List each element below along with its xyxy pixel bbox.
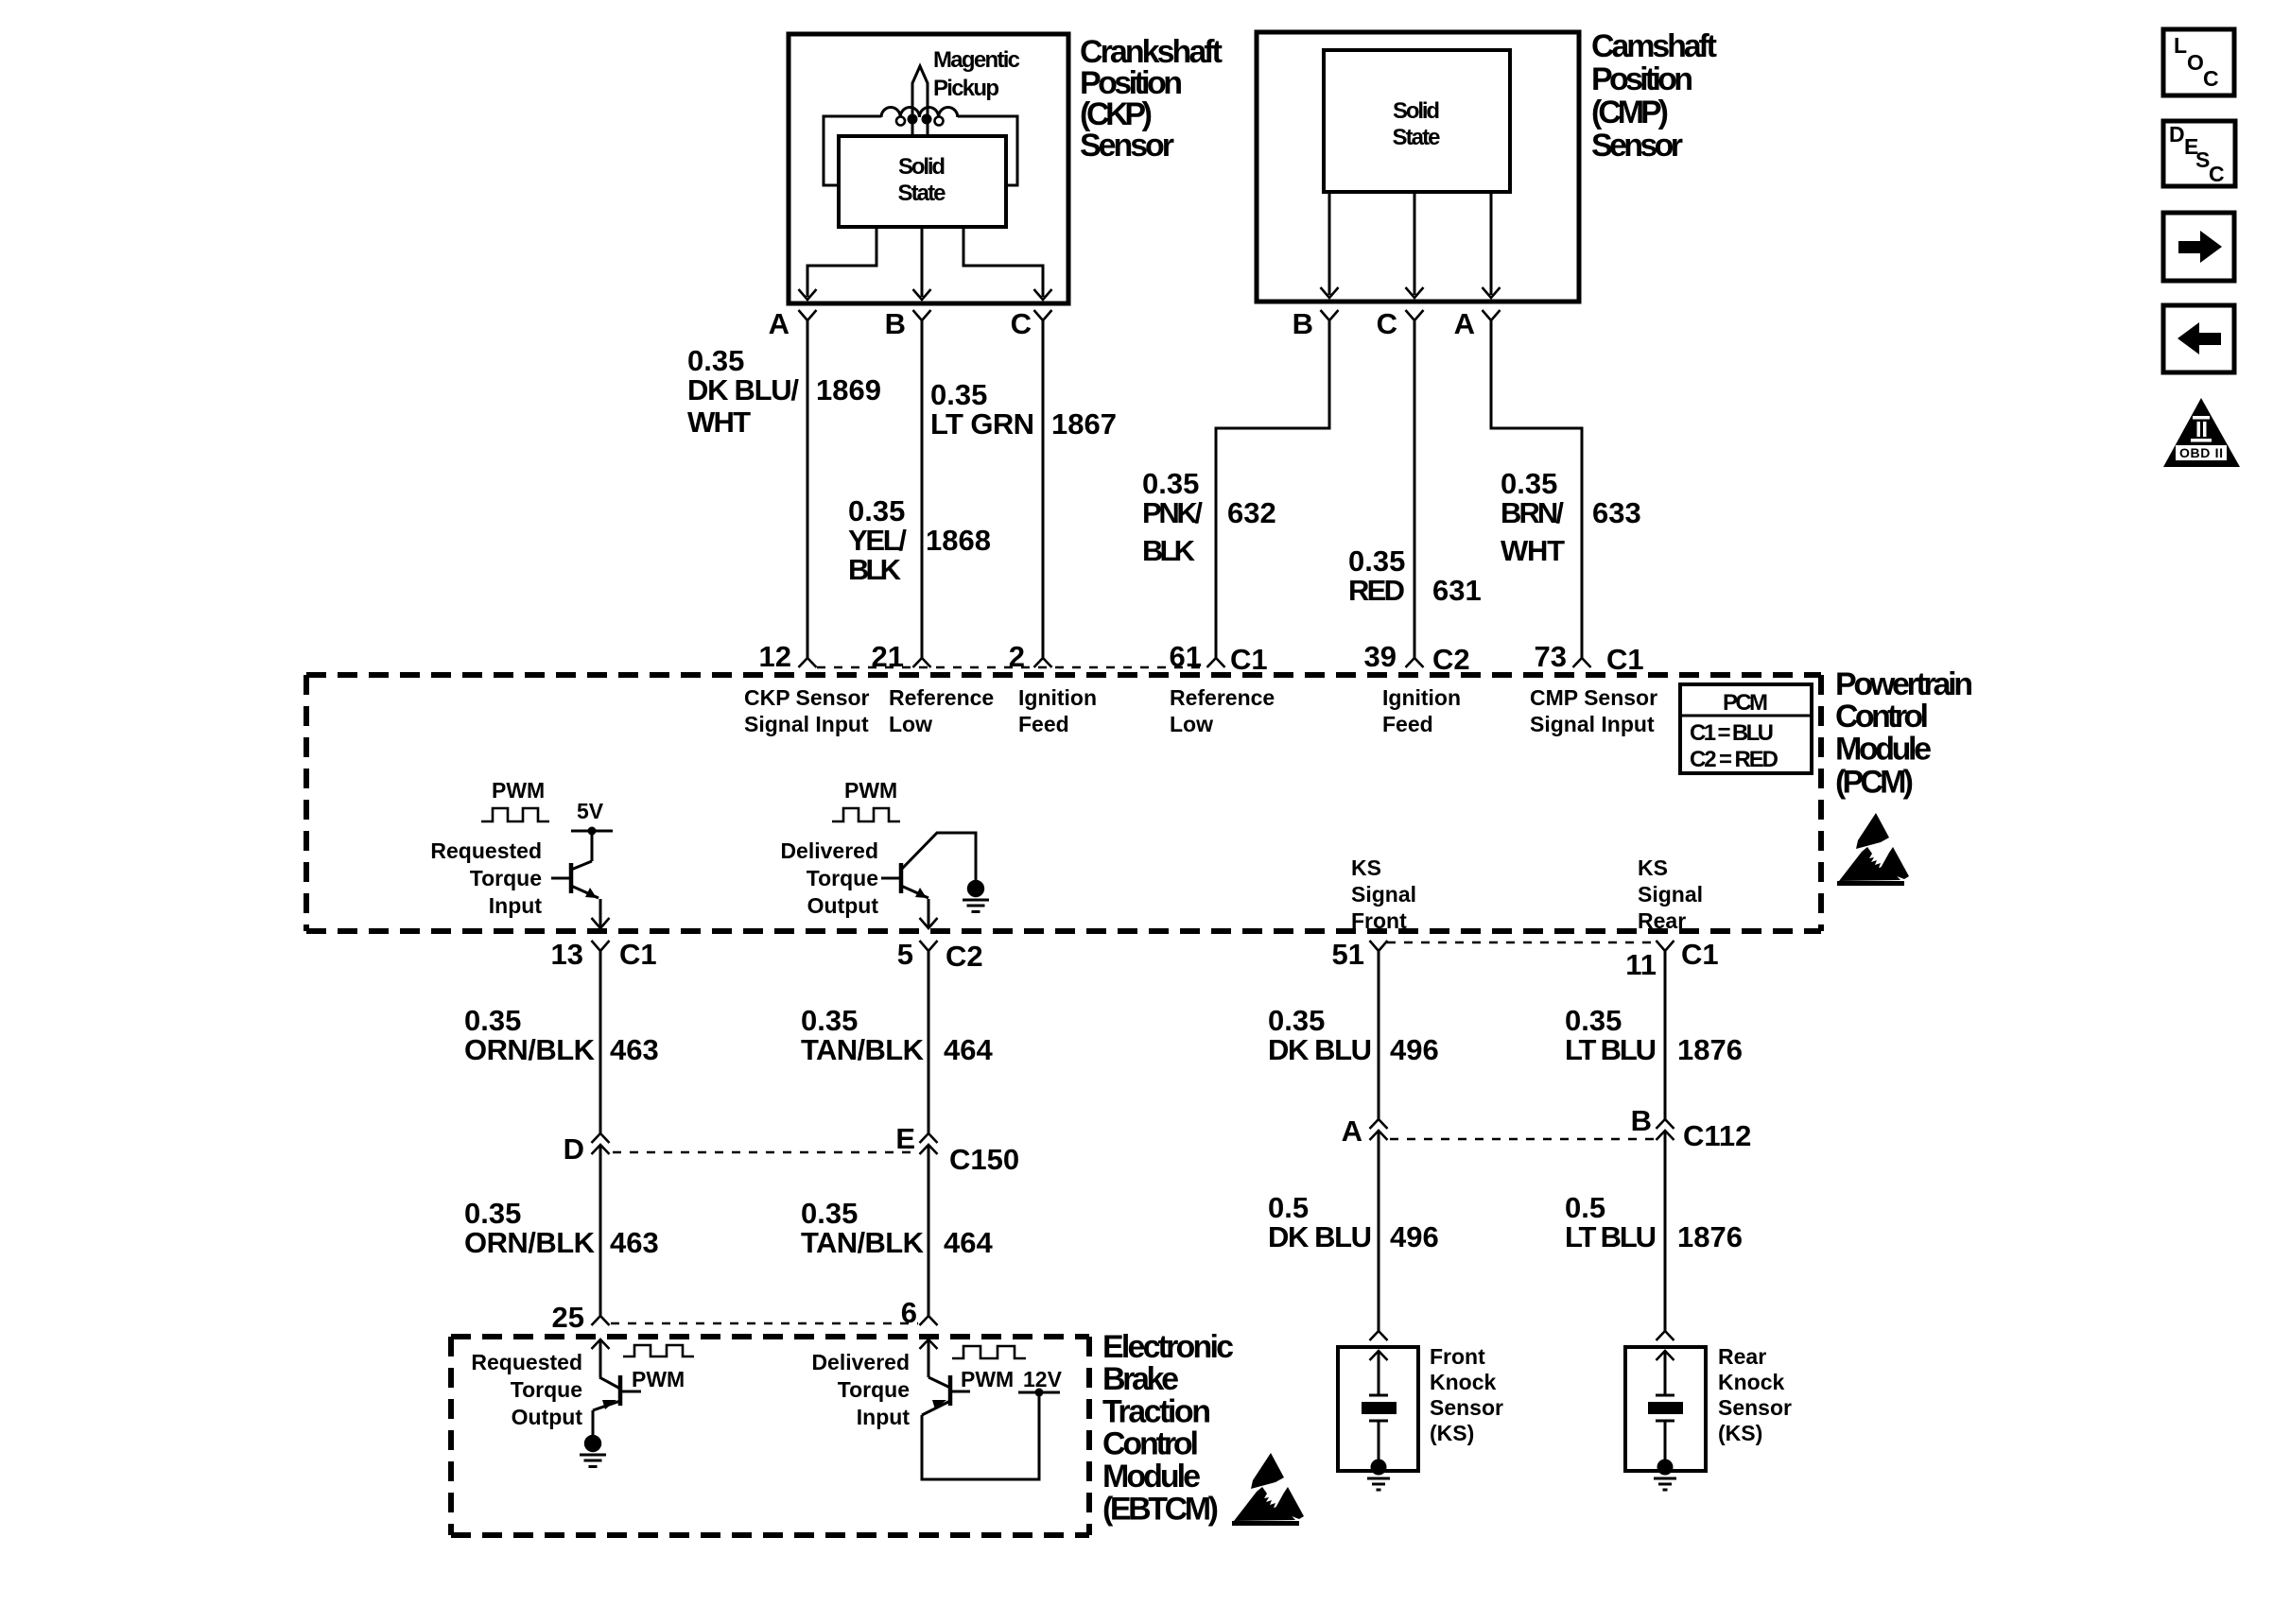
transistor Q3 requested torque output	[599, 1377, 620, 1389]
wire 464 PCM 5 to C150 E	[928, 951, 930, 1133]
svg-text:Magentic: Magentic	[933, 47, 1020, 73]
svg-text:(KS): (KS)	[1718, 1421, 1762, 1445]
svg-text:Sensor: Sensor	[1718, 1395, 1792, 1420]
svg-text:State: State	[1393, 125, 1441, 150]
OBD II icon	[2163, 398, 2240, 467]
svg-text:11: 11	[1625, 948, 1657, 981]
svg-text:LT BLU: LT BLU	[1565, 1033, 1657, 1066]
forward arrow icon box	[2163, 213, 2234, 281]
wire 633 CMP A to PCM 73	[1491, 320, 1582, 658]
svg-text:DK BLU/: DK BLU/	[687, 373, 799, 406]
wire pin 25 into EBTCM (up arrow)	[592, 1339, 610, 1349]
svg-text:39: 39	[1364, 640, 1397, 673]
PCM connector legend box	[1680, 684, 1812, 773]
svg-text:Position: Position	[1591, 61, 1693, 97]
ground symbol (Q2)	[963, 880, 989, 912]
wire solid-state to pin B	[921, 227, 924, 297]
svg-text:A: A	[1454, 307, 1475, 340]
svg-text:Feed: Feed	[1382, 712, 1433, 736]
svg-text:Reference: Reference	[1170, 685, 1275, 710]
wire 1876 C112 B to rear knock sensor	[1664, 1131, 1667, 1331]
CKP pickup outline	[824, 116, 1017, 185]
svg-text:L: L	[2174, 33, 2187, 58]
svg-text:1876: 1876	[1677, 1033, 1743, 1066]
wire solid-state to pin A	[807, 227, 876, 297]
pin B connector Y	[1321, 310, 1339, 320]
svg-text:C1: C1	[1230, 643, 1268, 676]
svg-text:0.35: 0.35	[1501, 467, 1557, 500]
CMP sensor box	[1257, 32, 1579, 302]
SECTION: mid wires	[464, 938, 1751, 1331]
wire 631 CMP C to PCM 39	[1414, 320, 1416, 658]
svg-text:Sensor: Sensor	[1080, 128, 1174, 164]
svg-text:Input: Input	[857, 1405, 911, 1429]
rear KS ground	[1657, 1460, 1674, 1476]
svg-text:B: B	[885, 307, 906, 340]
front KS ground	[1371, 1460, 1387, 1476]
svg-text:Requested: Requested	[471, 1350, 582, 1374]
svg-text:0.35: 0.35	[1268, 1004, 1325, 1037]
svg-text:RED: RED	[1348, 574, 1405, 607]
svg-text:(KS): (KS)	[1430, 1421, 1474, 1445]
svg-text:C: C	[2209, 162, 2225, 186]
pin B connector Y	[913, 310, 931, 320]
svg-text:DK BLU: DK BLU	[1268, 1033, 1372, 1066]
svg-text:2: 2	[1009, 640, 1025, 673]
wire solid-state to pin C	[1414, 192, 1416, 295]
svg-text:Torque: Torque	[807, 866, 878, 890]
svg-text:Module: Module	[1835, 732, 1932, 768]
svg-text:C1: C1	[1681, 938, 1719, 971]
transistor Q1 requested torque input	[569, 863, 574, 893]
svg-text:KS: KS	[1638, 855, 1668, 880]
wire solid-state to pin A	[1490, 192, 1493, 295]
svg-text:PNK/: PNK/	[1142, 496, 1203, 529]
svg-text:YEL/: YEL/	[848, 524, 907, 557]
rear KS piezo element	[1656, 1394, 1674, 1397]
svg-text:DK BLU: DK BLU	[1268, 1220, 1372, 1253]
wire Q4 emitter to 12V	[922, 1392, 1039, 1479]
svg-text:C112: C112	[1683, 1119, 1751, 1152]
ground symbol (Q3)	[580, 1435, 606, 1467]
svg-text:C2 = RED: C2 = RED	[1690, 747, 1778, 772]
wire Q1 emitter to pin 13	[599, 899, 602, 928]
CKP sensor box	[789, 34, 1068, 303]
svg-text:Torque: Torque	[511, 1377, 582, 1402]
PWM square wave symbol (left)	[481, 808, 549, 821]
svg-text:Delivered: Delivered	[811, 1350, 910, 1374]
svg-text:25: 25	[552, 1301, 584, 1334]
SECTION: CKP sensor	[769, 34, 1223, 340]
svg-text:D: D	[2169, 122, 2185, 147]
svg-text:State: State	[898, 181, 946, 206]
front knock sensor connector chevron	[1370, 1331, 1388, 1340]
svg-text:1869: 1869	[816, 373, 881, 406]
connector C1 thin dashed line pins 12-61	[817, 666, 1207, 669]
svg-text:KS: KS	[1351, 855, 1381, 880]
svg-text:LT GRN: LT GRN	[930, 407, 1034, 441]
PWM square wave symbol (right)	[832, 808, 900, 821]
LOC icon box	[2163, 29, 2234, 95]
svg-text:0.35: 0.35	[930, 378, 987, 411]
svg-text:(PCM): (PCM)	[1835, 765, 1914, 801]
front KS piezo element	[1369, 1394, 1388, 1397]
svg-text:Solid: Solid	[898, 154, 946, 180]
wire 463 C150 D to EBTCM 25	[599, 1145, 602, 1316]
pin C connector Y	[1406, 310, 1424, 320]
wire 463 PCM 13 to C150 D	[599, 951, 602, 1133]
svg-text:73: 73	[1535, 640, 1567, 673]
svg-text:C1: C1	[1606, 643, 1644, 676]
wire solid-state to pin B	[1328, 192, 1331, 295]
DESC icon box	[2163, 121, 2235, 186]
wire 1868 CKP B to PCM 21	[921, 320, 924, 658]
svg-text:D: D	[564, 1132, 584, 1166]
svg-text:(CMP): (CMP)	[1591, 95, 1669, 130]
svg-text:12: 12	[759, 640, 791, 673]
svg-text:5V: 5V	[577, 799, 604, 823]
CMP solid state box	[1324, 50, 1510, 192]
svg-text:Low: Low	[1170, 712, 1213, 736]
svg-text:BLK: BLK	[1142, 534, 1196, 567]
svg-text:Pickup: Pickup	[933, 76, 999, 101]
wire 496 PCM 51 to C112 A	[1378, 951, 1380, 1119]
svg-text:PWM: PWM	[492, 778, 545, 803]
EBTCM module dashed box	[451, 1334, 1089, 1339]
rear KS internal arrow	[1657, 1351, 1674, 1360]
svg-text:Rear: Rear	[1718, 1344, 1766, 1369]
svg-text:C: C	[2203, 66, 2219, 91]
svg-text:Output: Output	[807, 893, 879, 918]
svg-text:Ignition: Ignition	[1018, 685, 1097, 710]
svg-text:TAN/BLK: TAN/BLK	[801, 1226, 925, 1259]
svg-text:0.35: 0.35	[464, 1004, 521, 1037]
wire 496 C112 A to front knock sensor	[1378, 1131, 1380, 1331]
svg-text:A: A	[1342, 1114, 1362, 1148]
svg-text:ORN/BLK: ORN/BLK	[464, 1226, 596, 1259]
SECTION: top wires	[687, 320, 1641, 658]
svg-text:Knock: Knock	[1718, 1370, 1785, 1394]
svg-text:Rear: Rear	[1638, 908, 1686, 933]
svg-text:0.35: 0.35	[1565, 1004, 1622, 1037]
svg-text:0.35: 0.35	[1142, 467, 1199, 500]
svg-text:5: 5	[897, 938, 913, 971]
svg-text:PWM: PWM	[961, 1367, 1014, 1391]
svg-text:Electronic: Electronic	[1102, 1329, 1234, 1365]
5V supply line with junction	[571, 830, 613, 833]
CKP magnetic pickup rod	[912, 66, 928, 138]
pin A connector Y	[799, 310, 817, 320]
svg-text:1868: 1868	[926, 524, 991, 557]
svg-text:A: A	[769, 307, 789, 340]
svg-text:496: 496	[1390, 1220, 1439, 1253]
svg-text:Torque: Torque	[838, 1377, 910, 1402]
svg-text:Feed: Feed	[1018, 712, 1069, 736]
svg-text:61: 61	[1170, 640, 1202, 673]
svg-text:631: 631	[1432, 574, 1482, 607]
wire 1867 CKP C to PCM 2	[1042, 320, 1045, 658]
svg-text:21: 21	[872, 640, 904, 673]
connector thin dashed line pins 25-6	[611, 1322, 918, 1325]
svg-text:1876: 1876	[1677, 1220, 1743, 1253]
svg-text:464: 464	[944, 1033, 993, 1066]
SECTION: CMP sensor	[1257, 28, 1717, 340]
svg-text:632: 632	[1227, 496, 1276, 529]
pin C connector Y	[1034, 310, 1052, 320]
svg-text:O: O	[2187, 50, 2204, 75]
svg-text:E: E	[895, 1122, 915, 1155]
svg-text:0.5: 0.5	[1268, 1191, 1309, 1224]
SECTION: EBTCM	[451, 1296, 1304, 1535]
wire Q2 emitter to pin 5	[928, 899, 930, 928]
wire 632 CMP B to PCM 61	[1216, 320, 1329, 658]
svg-text:C2: C2	[1432, 643, 1470, 676]
ESD sensitive symbol (EBTCM)	[1232, 1453, 1304, 1526]
wire 1876 PCM 11 to C112 B	[1664, 951, 1667, 1119]
svg-text:ORN/BLK: ORN/BLK	[464, 1033, 596, 1066]
svg-text:PWM: PWM	[632, 1367, 685, 1391]
svg-text:OBD II: OBD II	[2179, 445, 2223, 460]
svg-text:LT BLU: LT BLU	[1565, 1220, 1657, 1253]
svg-text:PCM: PCM	[1723, 690, 1768, 716]
svg-text:BLK: BLK	[848, 553, 902, 586]
svg-text:Front: Front	[1430, 1344, 1485, 1369]
SECTION: side icons	[2163, 29, 2240, 467]
svg-text:Ignition: Ignition	[1382, 685, 1461, 710]
svg-text:Output: Output	[512, 1405, 583, 1429]
SECTION: PCM	[306, 640, 1973, 933]
svg-text:Camshaft: Camshaft	[1591, 28, 1717, 64]
svg-text:Traction: Traction	[1102, 1394, 1211, 1430]
svg-text:(EBTCM): (EBTCM)	[1102, 1492, 1219, 1528]
svg-text:Powertrain: Powertrain	[1835, 666, 1973, 702]
ESD sensitive symbol (PCM)	[1837, 813, 1909, 886]
svg-text:Delivered: Delivered	[780, 838, 878, 863]
svg-text:TAN/BLK: TAN/BLK	[801, 1033, 925, 1066]
PWM square wave (EBTCM left)	[623, 1345, 694, 1356]
svg-text:PWM: PWM	[844, 778, 897, 803]
svg-text:12V: 12V	[1023, 1367, 1063, 1391]
wire 1869 CKP A to PCM 12	[807, 320, 809, 658]
connector C112 dashed line	[1390, 1138, 1654, 1141]
svg-text:C1 = BLU: C1 = BLU	[1690, 720, 1774, 746]
svg-text:CMP Sensor: CMP Sensor	[1530, 685, 1657, 710]
svg-text:Module: Module	[1102, 1459, 1201, 1494]
svg-text:0.35: 0.35	[801, 1004, 858, 1037]
svg-text:WHT: WHT	[687, 406, 751, 439]
wire Q3 to ground	[592, 1410, 595, 1435]
svg-text:B: B	[1631, 1104, 1652, 1137]
transistor Q2 delivered torque output	[899, 863, 904, 893]
svg-text:Low: Low	[889, 712, 932, 736]
svg-text:Signal: Signal	[1638, 882, 1703, 907]
front KS internal arrow	[1370, 1351, 1388, 1360]
svg-text:Front: Front	[1351, 908, 1407, 933]
svg-text:CKP Sensor: CKP Sensor	[744, 685, 870, 710]
svg-text:BRN/: BRN/	[1501, 496, 1564, 529]
svg-text:0.35: 0.35	[687, 344, 744, 377]
svg-text:C150: C150	[949, 1143, 1019, 1176]
svg-text:1867: 1867	[1051, 407, 1117, 441]
svg-text:Brake: Brake	[1102, 1361, 1179, 1397]
svg-text:Control: Control	[1102, 1426, 1199, 1462]
svg-text:463: 463	[610, 1033, 659, 1066]
svg-text:13: 13	[551, 938, 583, 971]
svg-text:496: 496	[1390, 1033, 1439, 1066]
PCM module dashed box	[306, 672, 1821, 678]
svg-text:0.35: 0.35	[801, 1197, 858, 1230]
rear knock sensor connector chevron	[1657, 1331, 1674, 1340]
svg-text:Requested: Requested	[430, 838, 542, 863]
svg-text:0.35: 0.35	[464, 1197, 521, 1230]
svg-text:Reference: Reference	[889, 685, 994, 710]
svg-text:C: C	[1377, 307, 1397, 340]
transistor Q4 delivered torque input	[928, 1377, 950, 1388]
CKP pickup coil L1	[881, 108, 958, 118]
svg-text:Control: Control	[1835, 699, 1929, 734]
svg-text:Torque: Torque	[470, 866, 542, 890]
svg-text:Sensor: Sensor	[1591, 128, 1683, 164]
svg-text:Knock: Knock	[1430, 1370, 1497, 1394]
SECTION: knock sensors	[1338, 1331, 1792, 1490]
pin A connector Y	[1483, 310, 1501, 320]
svg-text:B: B	[1293, 307, 1313, 340]
svg-text:633: 633	[1592, 496, 1641, 529]
svg-text:Signal Input: Signal Input	[1530, 712, 1655, 736]
wire pin 6 into EBTCM (up arrow)	[920, 1339, 938, 1349]
svg-text:WHT: WHT	[1501, 534, 1565, 567]
back arrow icon box	[2163, 305, 2234, 372]
svg-text:0.35: 0.35	[848, 494, 905, 527]
wire solid-state to pin C	[963, 227, 1043, 297]
svg-text:Solid: Solid	[1393, 98, 1440, 124]
wire 464 C150 E to EBTCM 6	[928, 1145, 930, 1316]
svg-text:Input: Input	[489, 893, 543, 918]
svg-text:C1: C1	[619, 938, 657, 971]
svg-text:463: 463	[610, 1226, 659, 1259]
svg-text:C2: C2	[946, 940, 983, 973]
connector C1 thin dashed line pins 51-11	[1387, 942, 1657, 944]
svg-text:0.5: 0.5	[1565, 1191, 1605, 1224]
rear knock sensor box	[1625, 1347, 1706, 1471]
svg-text:0.35: 0.35	[1348, 544, 1405, 578]
svg-text:Sensor: Sensor	[1430, 1395, 1503, 1420]
PWM square wave (EBTCM right)	[952, 1346, 1026, 1358]
svg-text:C: C	[1011, 307, 1032, 340]
front knock sensor box	[1338, 1347, 1418, 1471]
12V feed line with junction	[1018, 1391, 1060, 1394]
svg-text:Signal: Signal	[1351, 882, 1416, 907]
svg-text:464: 464	[944, 1226, 993, 1259]
connector C150 dashed line	[613, 1151, 916, 1154]
svg-text:6: 6	[901, 1296, 917, 1329]
svg-text:51: 51	[1332, 938, 1364, 971]
svg-text:Signal Input: Signal Input	[744, 712, 869, 736]
CKP solid state box	[839, 136, 1006, 227]
